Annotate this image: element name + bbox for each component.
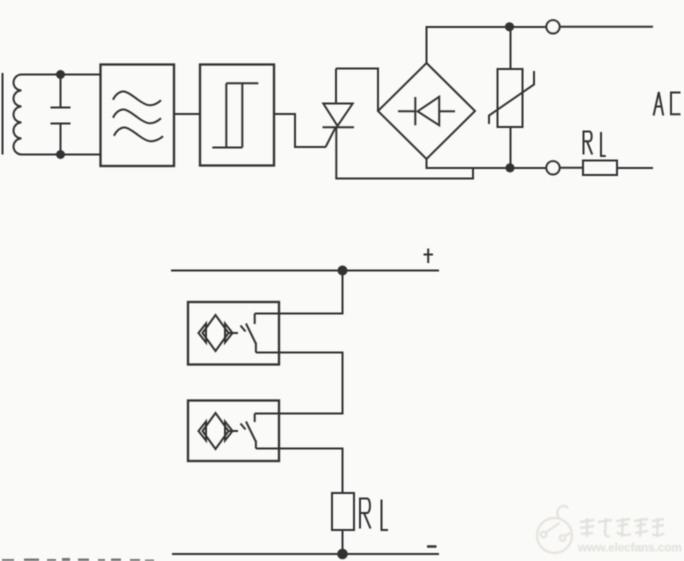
wire sensor1 lower to sensor2 upper (255, 353, 343, 414)
node: top rail junction (506, 23, 513, 30)
sensor B2 upper contact (254, 414, 256, 423)
resistor RL top-right body (583, 161, 617, 176)
thyristor anode lead (335, 69, 337, 104)
sensor B1 switch hinge tick (241, 326, 246, 332)
watermark text 电子发烧友 (580, 518, 664, 537)
filter wave 1 (113, 91, 161, 105)
wire coil top to filter box (22, 74, 101, 76)
sensor B2 switch arm (246, 422, 256, 442)
bridge rectifier diamond (378, 63, 475, 159)
watermark logo elecfans (537, 506, 572, 553)
thyristor V gate lead (326, 128, 336, 147)
wire RL right (617, 167, 653, 169)
bridge diode lead right (439, 110, 455, 112)
sensor B2 diamond (203, 413, 229, 449)
node: cap bottom junction (57, 151, 64, 158)
node: minus rail junction (338, 550, 347, 559)
capacitor C1 (51, 75, 71, 155)
sensor B1 inner right triangle (225, 324, 233, 343)
terminal circle bottom (546, 161, 559, 174)
bottom edge cut-off text marks (2, 558, 154, 561)
wire coil bottom to filter box (22, 154, 101, 156)
varistor RV diagonal (489, 71, 534, 124)
node: plus rail junction (339, 267, 347, 275)
varistor RV wire bottom (510, 127, 512, 168)
varistor RV wire top (510, 27, 512, 69)
node: cap top junction (57, 71, 64, 78)
bridge diode lead left (398, 110, 415, 112)
thyristor V cathode bar (323, 126, 355, 128)
wire thyristor cathode down and right (336, 127, 473, 178)
wire terminal to RL (560, 167, 584, 169)
plus rail (171, 270, 439, 272)
wire RL to minus rail (342, 530, 344, 554)
label minus (427, 545, 437, 548)
filter wave 2 (113, 109, 161, 123)
varistor RV body (498, 69, 523, 127)
terminal circle top (546, 20, 559, 33)
minus rail (172, 553, 439, 555)
sensor B1 switch stub (229, 332, 239, 334)
thyristor V triangle (323, 104, 352, 126)
label RL (top) (584, 132, 606, 157)
sensor B2 inner left triangle (199, 422, 207, 441)
sensor B1 diamond (203, 315, 229, 351)
sensor B1 lower contact (255, 343, 257, 353)
bridge diode triangle (418, 97, 440, 126)
wire filter to schmitt (174, 113, 200, 115)
sensor B1 upper contact (254, 314, 256, 325)
sensor B2 lower contact (255, 441, 257, 449)
inductor L1 coil (14, 75, 22, 155)
transformer core bar (2, 73, 4, 155)
label + (424, 249, 434, 264)
sensor B2 switch hinge tick (241, 424, 246, 430)
wire top rail right (560, 26, 653, 28)
wire schmitt to thyristor gate (274, 114, 326, 147)
filter block box (101, 65, 175, 167)
wire plus junction to sensor1 (255, 271, 343, 314)
filter wave 3 (114, 127, 163, 141)
node: bottom rail junction (506, 164, 513, 171)
resistor RL bottom body (332, 493, 354, 530)
sensor B2 switch stub (229, 430, 239, 432)
sensor B2 box (188, 401, 279, 462)
sensor B2 inner right triangle (225, 422, 233, 441)
schmitt trigger block box (200, 65, 274, 166)
bridge diode cathode bar (414, 97, 416, 125)
schmitt hysteresis symbol (212, 83, 258, 147)
wire bridge bottom to AC bottom rail (427, 159, 549, 168)
svg-text:www.elecfans.com: www.elecfans.com (577, 541, 682, 555)
sensor B1 inner left triangle (199, 324, 207, 343)
sensor B1 switch arm (246, 324, 256, 344)
wire sensor2 lower to RL (256, 449, 343, 494)
sensor B1 box (188, 302, 279, 365)
wire bridge top to AC top rail (427, 27, 549, 63)
label RL (bottom) (360, 499, 388, 531)
label AC (654, 92, 681, 116)
wire thyristor anode to bridge left corner (336, 69, 378, 112)
